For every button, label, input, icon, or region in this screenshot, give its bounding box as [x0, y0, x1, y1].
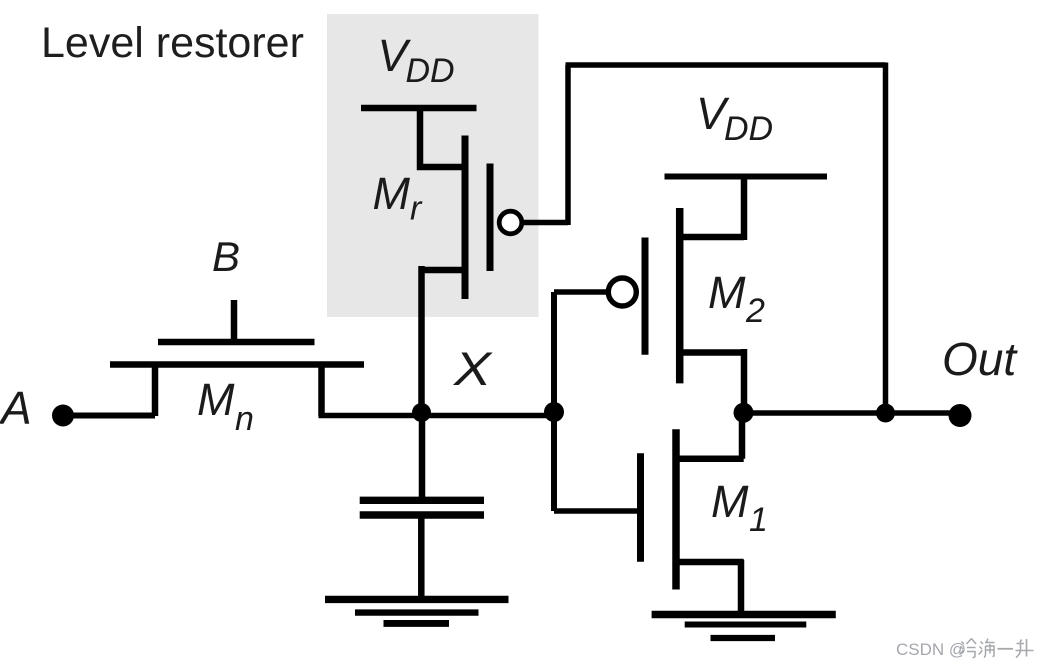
PMOS bubble (M2 gate) — [608, 278, 636, 306]
svg-text:M: M — [708, 267, 746, 318]
node X dot — [412, 403, 431, 422]
wire feedback: Mr gate to Out node — [522, 63, 886, 414]
svg-text:CSDN @: CSDN @ — [896, 640, 966, 659]
terminal A dot — [52, 405, 74, 427]
svg-text:B: B — [212, 233, 240, 280]
wire to M2 gate — [554, 289, 608, 295]
power VDD rail (restorer) — [361, 105, 477, 112]
level restorer shaded box — [327, 14, 539, 317]
svg-text:M: M — [373, 168, 411, 219]
net VDD label (inverter) — [696, 88, 773, 148]
label Mn — [197, 374, 254, 438]
svg-text:Level restorer: Level restorer — [41, 19, 304, 67]
svg-text:M: M — [711, 476, 749, 527]
PMOS bubble (Mr gate) — [499, 211, 522, 234]
ground (below capacitor) — [325, 599, 509, 623]
svg-text:DD: DD — [724, 110, 773, 148]
capacitor at node X — [360, 410, 484, 599]
terminal Out dot — [949, 404, 972, 427]
transistor M2 (PMOS) — [645, 174, 744, 413]
label Mr — [373, 168, 424, 228]
svg-text:M: M — [197, 374, 235, 425]
power VDD rail (inverter) — [665, 174, 828, 180]
wire A to Mn source — [62, 413, 155, 419]
node dot inverter input — [544, 402, 564, 422]
wire inverter input vertical — [551, 292, 557, 511]
ground (below M1) — [652, 615, 836, 639]
svg-text:Out: Out — [942, 333, 1018, 385]
svg-text:1: 1 — [749, 501, 768, 539]
label M2 — [708, 267, 765, 330]
wire output rail — [744, 410, 961, 416]
wire to M1 gate — [554, 508, 641, 514]
svg-text:DD: DD — [406, 52, 455, 90]
transistor M1 (NMOS) — [641, 413, 744, 614]
wire Mn drain to inverter input (node X rail) — [319, 413, 555, 419]
node dot feedback junction — [876, 404, 895, 423]
transistor Mr (PMOS) — [420, 105, 490, 299]
watermark hanzi 沧海一升 — [960, 639, 1034, 658]
svg-text:2: 2 — [745, 292, 765, 330]
svg-text:n: n — [235, 400, 254, 438]
svg-text:r: r — [410, 190, 423, 228]
label M1 — [711, 476, 768, 539]
transistor Mn (NMOS pass gate) — [110, 300, 364, 416]
wire Mr drain to node X — [418, 266, 425, 416]
net VDD label (restorer) — [378, 30, 455, 90]
node dot inverter output — [734, 403, 754, 423]
svg-text:X: X — [453, 342, 493, 395]
svg-text:A: A — [0, 382, 32, 434]
